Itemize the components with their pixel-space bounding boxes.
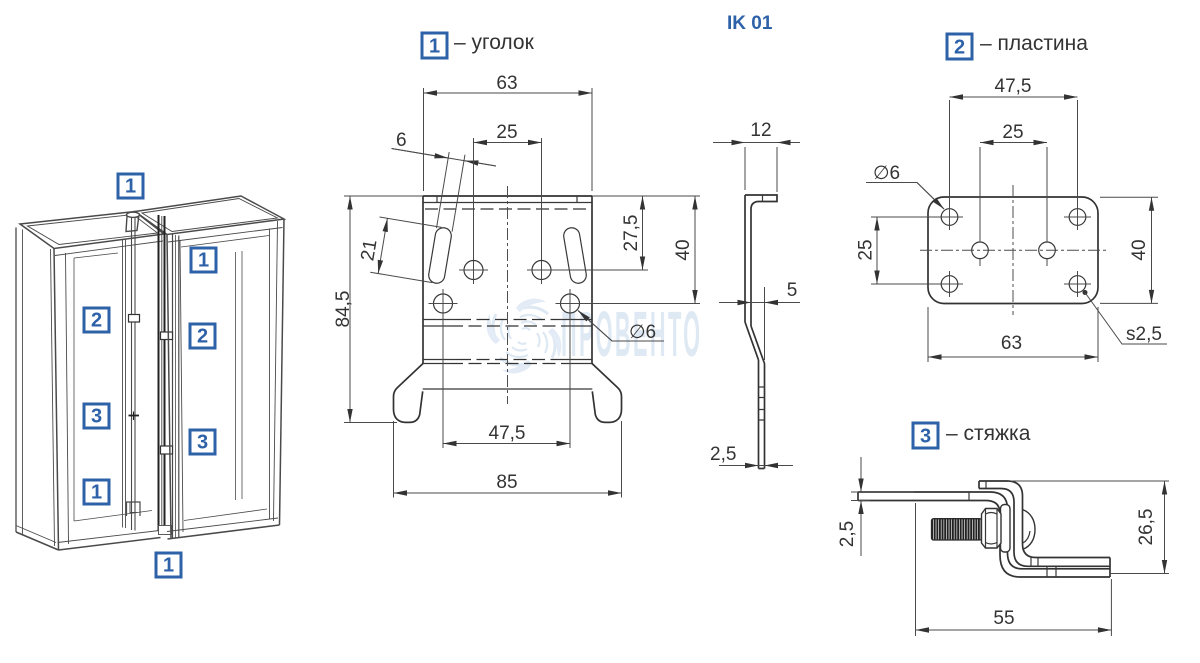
part 1 title box xyxy=(422,33,447,58)
dimension 5 jog xyxy=(719,280,800,360)
svg-text:1: 1 xyxy=(125,176,136,198)
right foot xyxy=(592,364,622,423)
label 1 top xyxy=(118,174,143,198)
part 2 title box xyxy=(947,34,972,59)
bolt threaded shaft xyxy=(932,519,982,540)
plate middle hole left xyxy=(972,147,989,266)
svg-text:25: 25 xyxy=(496,122,517,143)
dimension 2,5 tie xyxy=(837,457,914,556)
label 1 left cab bottom xyxy=(84,480,109,504)
svg-text:– пластина: – пластина xyxy=(980,32,1088,55)
dimension 47,5 plate xyxy=(950,76,1078,208)
plate corner hole bottom-left xyxy=(936,271,963,297)
svg-text:55: 55 xyxy=(993,608,1014,629)
plate corner hole bottom-right xyxy=(1064,271,1091,297)
top lip xyxy=(745,195,777,202)
svg-text:63: 63 xyxy=(496,73,517,94)
lifting eye plug on top xyxy=(126,212,140,231)
svg-text:25: 25 xyxy=(1002,122,1023,143)
plate middle hole right xyxy=(1039,147,1056,266)
seam bottom junction xyxy=(159,526,172,535)
svg-text:2,5: 2,5 xyxy=(837,521,858,547)
dimension 25 plate left xyxy=(856,217,942,284)
plate corner hole top-left xyxy=(936,204,963,230)
svg-text:5: 5 xyxy=(787,280,798,301)
plate corner hole top-right xyxy=(1064,204,1091,230)
upper fold band dashed xyxy=(423,320,592,327)
svg-text:47,5: 47,5 xyxy=(489,423,526,444)
dimension 55 xyxy=(916,503,1112,636)
left slanted slot xyxy=(355,140,464,284)
dimension 40 part1 xyxy=(673,196,695,304)
dimension 85 xyxy=(394,421,622,498)
dimension 84,5 xyxy=(333,196,423,423)
cabinet left top face xyxy=(20,212,164,249)
dimension 12 xyxy=(713,120,800,192)
tie bottom arm ticks xyxy=(1031,558,1056,578)
svg-text:IK 01: IK 01 xyxy=(727,13,773,34)
svg-text:40: 40 xyxy=(673,239,694,260)
label 2 left cab xyxy=(84,308,109,332)
dimension 25 plate top xyxy=(980,122,1047,143)
dimension 27,5 xyxy=(592,196,700,270)
label 3 left cab xyxy=(84,404,109,428)
embossed dome xyxy=(1023,510,1036,550)
right slanted slot xyxy=(562,227,587,285)
jog xyxy=(745,322,759,360)
watermark logo fan xyxy=(487,299,562,374)
seam clamp upper xyxy=(161,332,173,340)
dimension 63 plate xyxy=(928,307,1098,362)
leg tick marks xyxy=(759,387,765,420)
lower hole left xyxy=(429,289,458,448)
svg-text:2,5: 2,5 xyxy=(710,444,736,465)
svg-text:∅6: ∅6 xyxy=(629,322,656,343)
plate centerlines xyxy=(920,185,1106,315)
cabinet right frame lines xyxy=(167,219,284,539)
svg-text:3: 3 xyxy=(91,406,102,428)
vertical web xyxy=(744,195,746,322)
svg-text:1: 1 xyxy=(163,555,174,577)
label diameter 6 plate xyxy=(866,163,944,209)
left foot xyxy=(394,364,424,423)
svg-text:s2,5: s2,5 xyxy=(1126,324,1162,345)
side view profile of angle bracket xyxy=(745,195,777,469)
svg-text:∅6: ∅6 xyxy=(873,163,900,184)
web line between feet xyxy=(423,388,593,390)
svg-text:26,5: 26,5 xyxy=(1136,509,1157,546)
label s2,5 thickness xyxy=(1083,290,1168,345)
tie outer piece xyxy=(979,481,1110,577)
svg-text:85: 85 xyxy=(496,472,517,493)
dimension 2,5 thickness xyxy=(710,444,793,466)
label diameter 6 xyxy=(578,311,664,344)
svg-text:12: 12 xyxy=(750,120,771,141)
angle bracket U1 plate outline xyxy=(423,196,592,364)
dimension 47,5 xyxy=(443,423,570,444)
svg-text:1: 1 xyxy=(198,250,209,272)
dimension 26,5 xyxy=(1008,481,1169,574)
washer xyxy=(1001,505,1011,553)
svg-text:47,5: 47,5 xyxy=(995,76,1032,97)
vertical centerline xyxy=(507,186,509,404)
nut xyxy=(982,509,1002,549)
label 3 right cab xyxy=(190,430,215,454)
dimension 25 top xyxy=(474,122,542,261)
svg-text:25: 25 xyxy=(856,239,877,260)
svg-text:40: 40 xyxy=(1129,239,1150,260)
svg-text:3: 3 xyxy=(197,432,208,454)
plate outline xyxy=(928,197,1098,304)
dimension 6 slot width leader xyxy=(392,130,497,166)
svg-text:2: 2 xyxy=(954,37,965,59)
svg-text:27,5: 27,5 xyxy=(621,215,642,252)
label 1 below cabinets xyxy=(156,553,181,577)
upper hole right xyxy=(527,261,648,285)
lower leg xyxy=(758,360,760,469)
lower hole right xyxy=(556,289,701,448)
door T mark xyxy=(129,412,140,421)
svg-text:– стяжка: – стяжка xyxy=(946,422,1031,445)
svg-text:21: 21 xyxy=(357,238,381,262)
svg-text:3: 3 xyxy=(920,426,931,448)
dimension 63 xyxy=(424,73,593,191)
svg-text:63: 63 xyxy=(1001,333,1022,354)
door handle mark xyxy=(129,315,140,323)
lower fold band dashed xyxy=(423,360,592,364)
cabinet right top face xyxy=(135,196,284,235)
cabinet left side+front frame lines xyxy=(16,212,163,550)
corner bracket mark bottom xyxy=(127,502,141,516)
center seam posts xyxy=(159,215,179,539)
part 3 title box xyxy=(913,423,938,448)
svg-text:6: 6 xyxy=(396,130,407,151)
svg-text:2: 2 xyxy=(197,326,208,348)
svg-text:1: 1 xyxy=(429,36,440,58)
svg-text:– уголок: – уголок xyxy=(454,31,535,54)
label 1 right cab xyxy=(191,248,216,272)
svg-text:2: 2 xyxy=(91,310,102,332)
upper hole left xyxy=(459,261,488,285)
svg-text:84,5: 84,5 xyxy=(333,291,354,328)
tie inner piece strip xyxy=(858,492,1110,577)
seam clamp lower xyxy=(161,446,173,454)
label 2 right cab xyxy=(190,324,215,348)
svg-text:1: 1 xyxy=(91,482,102,504)
top lip fold line xyxy=(423,196,592,209)
dimension 40 plate xyxy=(1100,197,1158,303)
